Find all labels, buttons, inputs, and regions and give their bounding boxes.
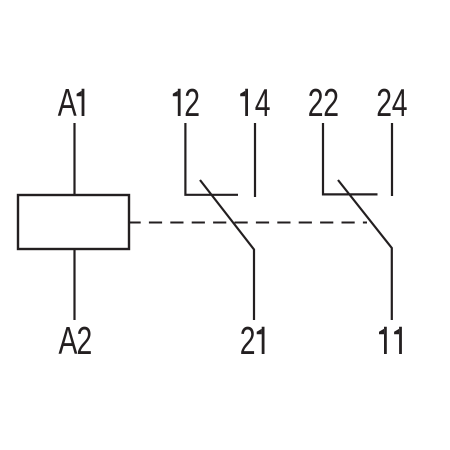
svg-text:2: 2 bbox=[184, 82, 200, 125]
wire A2 lead bbox=[73, 249, 75, 320]
terminal label 24 bbox=[376, 82, 407, 125]
svg-text:4: 4 bbox=[255, 82, 271, 125]
terminal label 22 bbox=[308, 82, 339, 125]
svg-text:2: 2 bbox=[376, 82, 392, 125]
terminal label A1 bbox=[58, 82, 85, 125]
contact 1 mover (changeover blade to terminal 21) bbox=[200, 180, 254, 320]
terminal label 11 bbox=[379, 327, 402, 354]
wire terminal 14 lead bbox=[254, 123, 256, 197]
mechanical link (dashed actuator line) bbox=[129, 221, 367, 223]
wire terminal 12 lead with NC seat bbox=[185, 123, 238, 195]
terminal label 14 bbox=[240, 82, 270, 125]
wire terminal 24 lead bbox=[391, 123, 393, 196]
svg-text:A: A bbox=[59, 320, 78, 363]
svg-text:2: 2 bbox=[240, 320, 256, 363]
svg-text:A: A bbox=[58, 82, 77, 125]
svg-text:4: 4 bbox=[392, 82, 408, 125]
coil K1 (relay coil box) bbox=[18, 195, 129, 249]
svg-text:2: 2 bbox=[308, 82, 324, 125]
contact 2 mover (changeover blade to terminal 11) bbox=[338, 180, 392, 320]
terminal label 21 bbox=[240, 320, 265, 363]
svg-text:2: 2 bbox=[323, 82, 339, 125]
terminal label A2 bbox=[59, 320, 93, 363]
terminal label 12 bbox=[173, 82, 200, 125]
svg-text:2: 2 bbox=[77, 320, 93, 363]
wire A1 lead bbox=[73, 123, 75, 195]
wire terminal 22 lead with NC seat bbox=[323, 123, 378, 194]
